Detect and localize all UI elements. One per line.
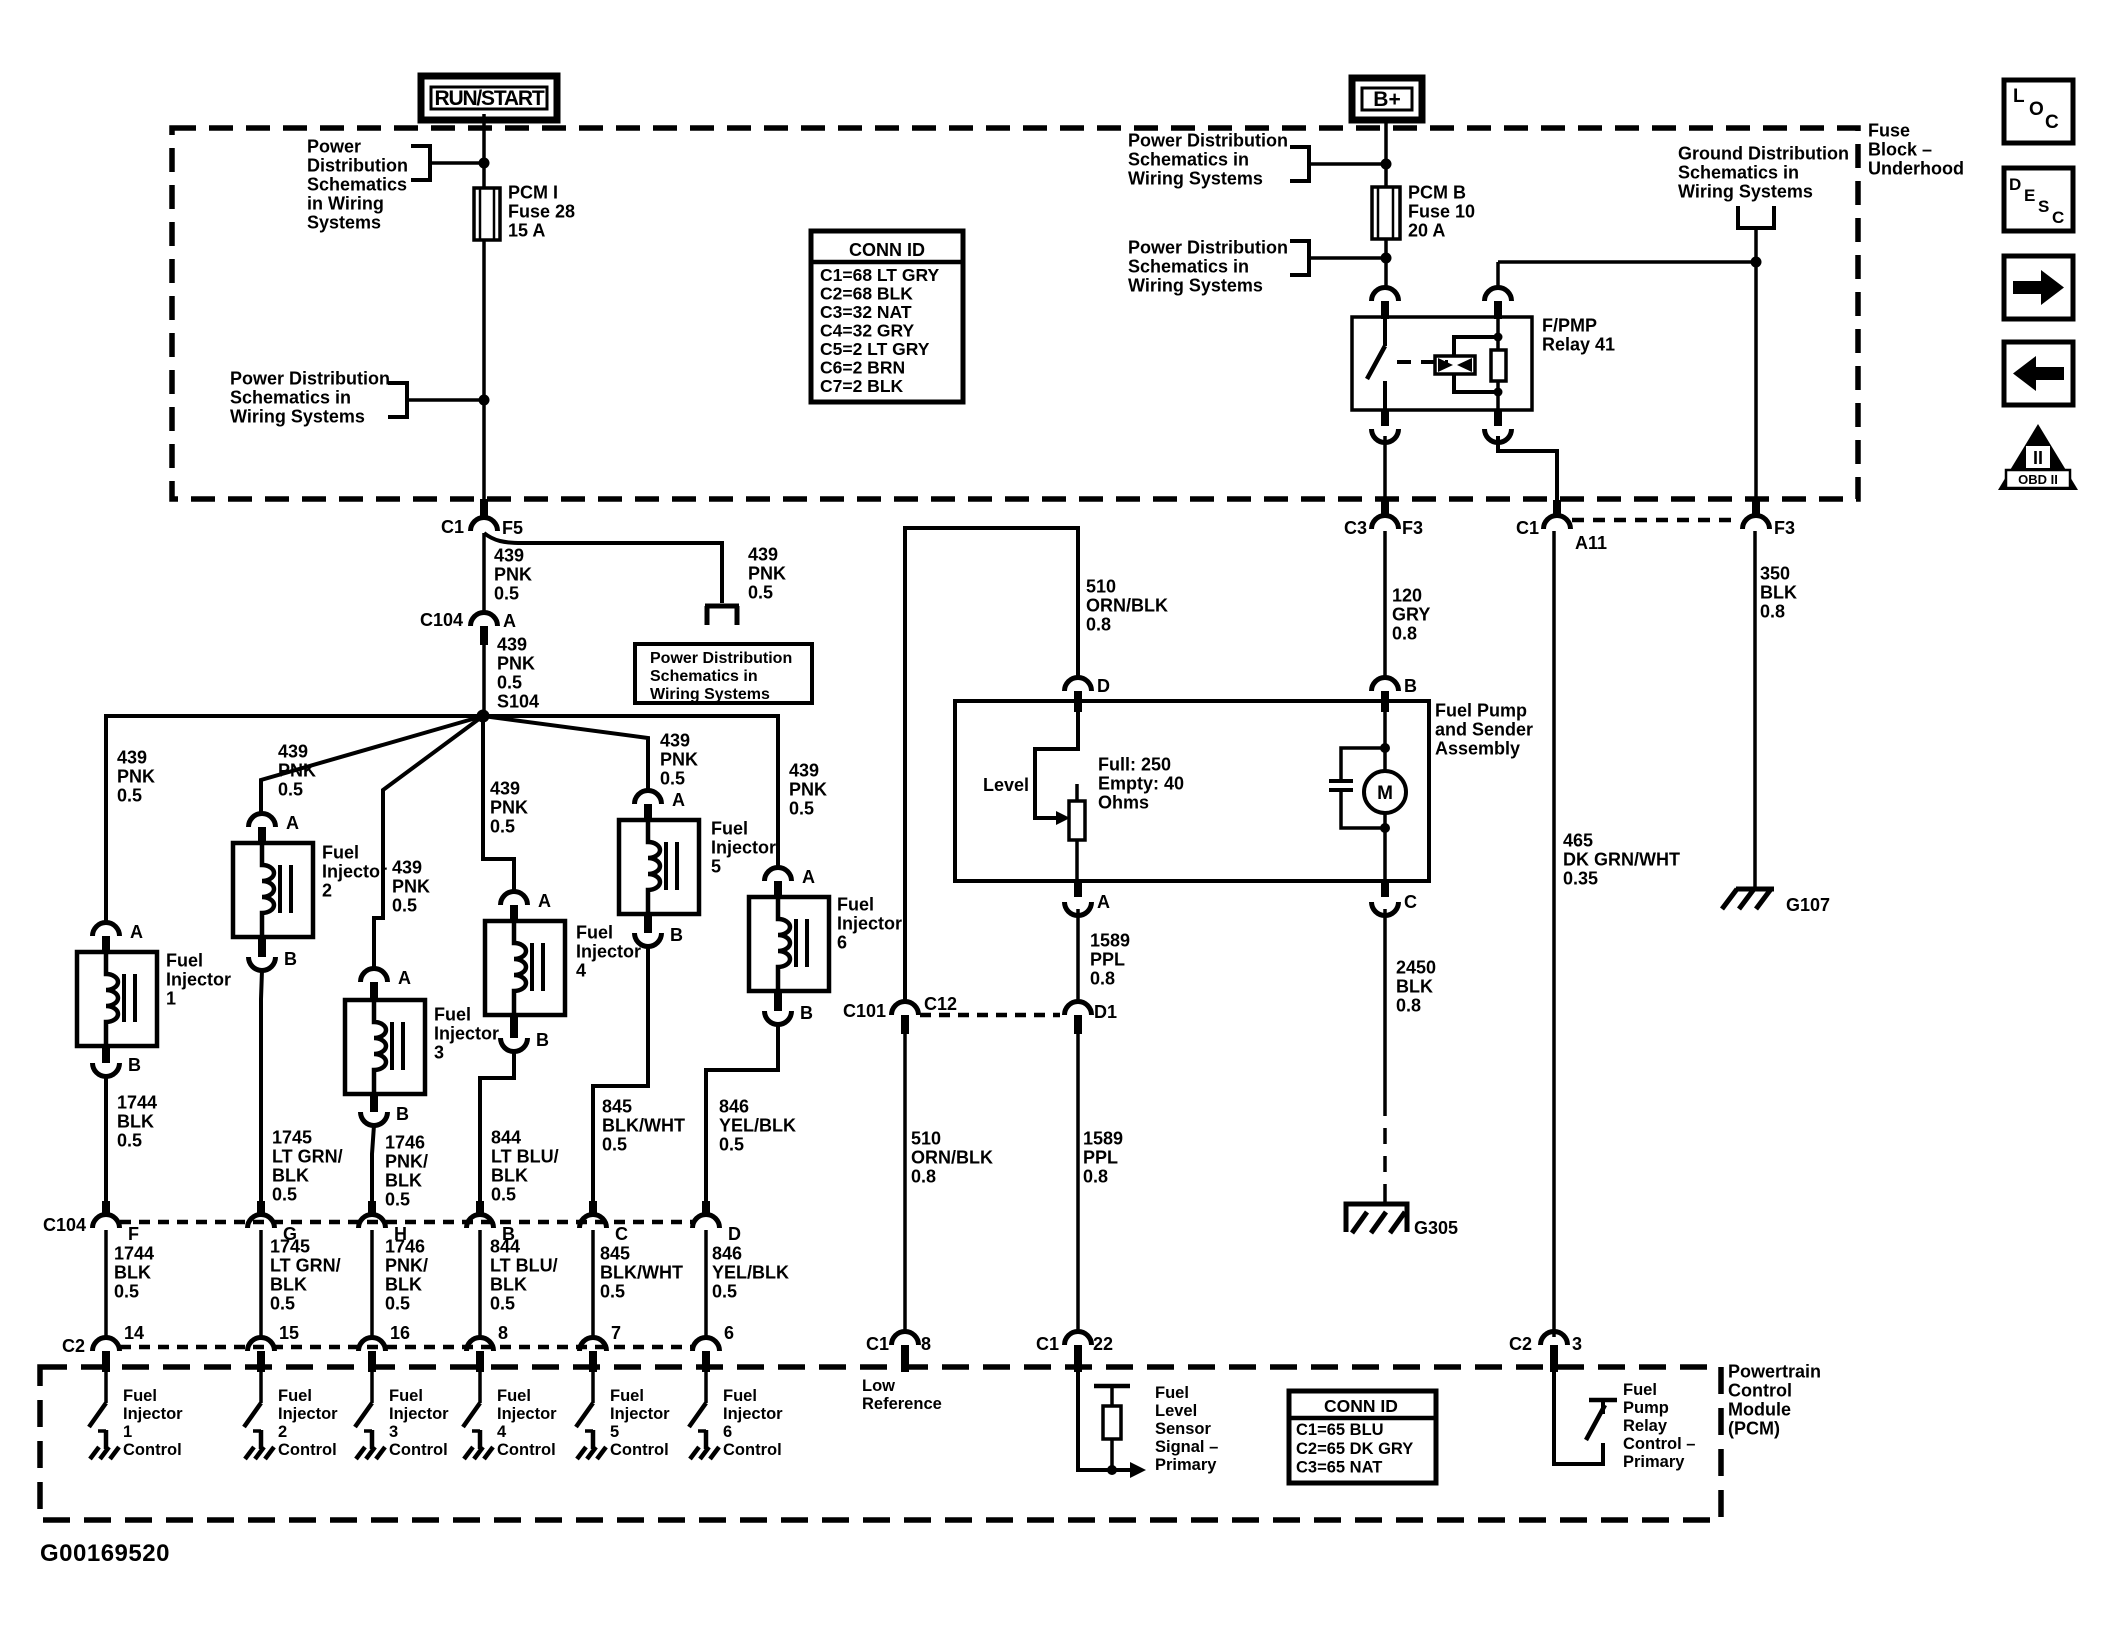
- svg-text:C12: C12: [924, 994, 957, 1014]
- svg-text:Fuel: Fuel: [434, 1004, 471, 1024]
- DESC icon: [2004, 168, 2073, 231]
- svg-text:Pump: Pump: [1623, 1399, 1669, 1417]
- svg-text:A: A: [286, 813, 299, 833]
- svg-text:5: 5: [711, 856, 721, 876]
- svg-text:5: 5: [610, 1423, 619, 1441]
- fuel level sensor resistor symbol: [1094, 1384, 1130, 1389]
- wire fuse to connector C1 F5: [482, 401, 486, 501]
- svg-text:Wiring Systems: Wiring Systems: [1128, 168, 1263, 188]
- connector F3 right: [1752, 500, 1760, 518]
- svg-text:0.5: 0.5: [719, 1134, 744, 1154]
- svg-text:BLK: BLK: [272, 1165, 309, 1185]
- svg-text:RUN/START: RUN/START: [435, 87, 545, 110]
- wire C104 F to C2 row: [104, 1230, 108, 1337]
- svg-text:C1: C1: [441, 517, 464, 537]
- connector C1 pin 22: [1065, 1332, 1092, 1346]
- svg-text:B: B: [800, 1003, 813, 1023]
- connector C2 pin 6: [693, 1338, 720, 1352]
- ground G305: [1346, 1204, 1407, 1232]
- svg-text:Fuel: Fuel: [278, 1387, 312, 1405]
- svg-text:Schematics in: Schematics in: [1128, 256, 1249, 276]
- svg-text:0.5: 0.5: [117, 1130, 142, 1150]
- svg-text:A: A: [538, 891, 551, 911]
- wire 439 PNK branch curve to power distribution box: [484, 533, 722, 603]
- fuel injector 2 control driver: [259, 1372, 263, 1403]
- connector C104 G: [257, 1201, 265, 1216]
- svg-text:Injector: Injector: [322, 861, 387, 881]
- wire ground distribution down to junction: [1754, 228, 1758, 262]
- relay pin 1 connector top: [1372, 288, 1399, 302]
- svg-text:Primary: Primary: [1155, 1456, 1217, 1474]
- F/PMP Relay 41 box: [1352, 317, 1532, 410]
- svg-text:3: 3: [1572, 1334, 1582, 1354]
- relay pin 3 connector bottom: [1381, 410, 1389, 426]
- connector C2 pin 15: [248, 1338, 275, 1352]
- svg-text:1744: 1744: [114, 1243, 154, 1263]
- dashed net line C104 row: [120, 1220, 692, 1225]
- svg-text:D: D: [728, 1224, 741, 1244]
- connector C1 F5: [471, 518, 498, 532]
- svg-text:C: C: [2052, 208, 2064, 227]
- wire relay pin 3 to C3 F3: [1383, 436, 1387, 503]
- svg-text:LT GRN/: LT GRN/: [270, 1255, 341, 1275]
- svg-text:Module: Module: [1728, 1399, 1791, 1419]
- connector B injector 3: [370, 1093, 378, 1112]
- svg-text:Level: Level: [1155, 1402, 1197, 1420]
- wire bracket to B+ wire lower: [1309, 256, 1386, 260]
- dashed net line C2 row: [120, 1345, 692, 1350]
- svg-text:C6=2 BRN: C6=2 BRN: [820, 357, 905, 377]
- svg-text:Control: Control: [723, 1441, 782, 1459]
- svg-text:1589: 1589: [1083, 1128, 1123, 1148]
- wire injector 6 B to C104: [706, 1024, 778, 1201]
- svg-text:PNK: PNK: [490, 797, 528, 817]
- svg-text:B: B: [1404, 676, 1417, 696]
- connector A injector 4: [501, 892, 528, 905]
- svg-text:PNK: PNK: [494, 564, 532, 584]
- svg-text:C: C: [615, 1224, 628, 1244]
- svg-text:A: A: [672, 790, 685, 810]
- connector A injector 2: [249, 814, 276, 828]
- svg-text:Wiring Systems: Wiring Systems: [650, 686, 770, 703]
- svg-text:GRY: GRY: [1392, 604, 1430, 624]
- svg-text:0.8: 0.8: [911, 1166, 936, 1186]
- svg-text:Control: Control: [389, 1441, 448, 1459]
- capacitor across motor: [1341, 748, 1385, 781]
- connector C104 H: [368, 1201, 376, 1216]
- svg-text:Block –: Block –: [1868, 139, 1932, 159]
- svg-text:Level: Level: [983, 775, 1029, 795]
- svg-text:Injector: Injector: [711, 837, 776, 857]
- svg-text:2: 2: [322, 880, 332, 900]
- svg-text:Fuel: Fuel: [837, 894, 874, 914]
- svg-text:14: 14: [124, 1323, 144, 1343]
- svg-text:Injector: Injector: [166, 969, 231, 989]
- svg-text:845: 845: [600, 1243, 630, 1263]
- svg-text:1745: 1745: [270, 1236, 310, 1256]
- RUN/START source label box: [421, 76, 557, 120]
- svg-text:PNK: PNK: [660, 749, 698, 769]
- fuel injector 6: [749, 897, 829, 991]
- svg-text:CONN ID: CONN ID: [1324, 1396, 1398, 1416]
- svg-text:D: D: [1097, 676, 1110, 696]
- svg-text:C4=32 GRY: C4=32 GRY: [820, 320, 915, 340]
- svg-text:Low: Low: [862, 1377, 895, 1395]
- svg-text:Fuse 28: Fuse 28: [508, 201, 575, 221]
- wire S104 to injector 4: [483, 716, 514, 892]
- connector C1 A11: [1553, 500, 1561, 518]
- svg-text:Assembly: Assembly: [1435, 738, 1520, 758]
- OBD II icon: [1998, 424, 2078, 490]
- svg-text:Schematics in: Schematics in: [1128, 149, 1249, 169]
- svg-text:1746: 1746: [385, 1132, 425, 1152]
- fuel injector 3: [345, 1000, 425, 1094]
- svg-text:Schematics: Schematics: [307, 174, 407, 194]
- svg-text:Injector: Injector: [723, 1405, 783, 1423]
- splice S104: [477, 710, 490, 723]
- svg-text:B: B: [670, 925, 683, 945]
- svg-text:PNK: PNK: [117, 766, 155, 786]
- node on RUN/START wire: [479, 158, 490, 169]
- B+ source label box: [1352, 78, 1422, 120]
- svg-text:0.5: 0.5: [497, 672, 522, 692]
- wire C104 to splice S104: [482, 645, 486, 716]
- wire bracket to RUN/START wire: [430, 161, 484, 165]
- svg-text:Fuel: Fuel: [711, 818, 748, 838]
- wire C3 F3 down to fuel pump B: [1383, 531, 1387, 677]
- wire C104 G to C2 row: [259, 1230, 263, 1337]
- svg-text:PPL: PPL: [1083, 1147, 1118, 1167]
- svg-text:Control: Control: [497, 1441, 556, 1459]
- svg-text:Control: Control: [278, 1441, 337, 1459]
- svg-text:0.35: 0.35: [1563, 868, 1598, 888]
- svg-text:Fuse: Fuse: [1868, 120, 1910, 140]
- svg-text:C: C: [2045, 112, 2059, 133]
- svg-text:C2: C2: [1509, 1334, 1532, 1354]
- wire PCM B fuse to relay: [1384, 239, 1388, 290]
- svg-text:C2=68 BLK: C2=68 BLK: [820, 283, 913, 303]
- svg-text:439: 439: [660, 730, 690, 750]
- svg-text:0.5: 0.5: [392, 895, 417, 915]
- svg-text:0.5: 0.5: [491, 1184, 516, 1204]
- connector B injector 1: [102, 1045, 110, 1063]
- wire C1 A11 down to PCM C2-3 465 DK GRN/WHT: [1552, 531, 1556, 1337]
- svg-text:D1: D1: [1094, 1002, 1117, 1022]
- connector C2 pin 8: [467, 1338, 494, 1352]
- svg-text:Fuel: Fuel: [576, 922, 613, 942]
- svg-text:0.5: 0.5: [385, 1189, 410, 1209]
- svg-text:C3=32 NAT: C3=32 NAT: [820, 302, 912, 322]
- connector B injector 2: [258, 936, 266, 957]
- svg-text:0.5: 0.5: [270, 1293, 295, 1313]
- svg-text:15: 15: [279, 1323, 299, 1343]
- svg-text:0.5: 0.5: [602, 1134, 627, 1154]
- svg-text:Fuel: Fuel: [723, 1387, 757, 1405]
- svg-text:DK GRN/WHT: DK GRN/WHT: [1563, 849, 1680, 869]
- fuel injector 1 control driver: [104, 1372, 108, 1403]
- svg-text:510: 510: [1086, 576, 1116, 596]
- svg-text:C1=65 BLU: C1=65 BLU: [1296, 1421, 1384, 1439]
- connector D fuel level sensor: [1065, 678, 1092, 692]
- svg-text:1745: 1745: [272, 1127, 312, 1147]
- svg-text:C1: C1: [866, 1334, 889, 1354]
- svg-text:G305: G305: [1414, 1218, 1458, 1238]
- svg-text:C101: C101: [843, 1001, 886, 1021]
- svg-text:439: 439: [748, 544, 778, 564]
- svg-text:PNK/: PNK/: [385, 1255, 428, 1275]
- relay coil wiring: [1454, 337, 1498, 392]
- svg-text:LT BLU/: LT BLU/: [491, 1146, 559, 1166]
- svg-text:16: 16: [390, 1323, 410, 1343]
- svg-text:PNK: PNK: [748, 563, 786, 583]
- wire dashed section to G305: [1383, 1100, 1387, 1190]
- svg-text:Relay: Relay: [1623, 1417, 1668, 1435]
- svg-text:0.5: 0.5: [712, 1281, 737, 1301]
- node relay coil bottom: [1494, 388, 1503, 397]
- node sensor resistor junction: [1107, 1465, 1117, 1475]
- connector C fuel pump return: [1381, 881, 1389, 897]
- svg-text:Power Distribution: Power Distribution: [1128, 130, 1288, 150]
- svg-text:0.5: 0.5: [114, 1281, 139, 1301]
- svg-text:A: A: [130, 922, 143, 942]
- connector A fuel level signal: [1074, 881, 1082, 897]
- svg-text:A: A: [1097, 892, 1110, 912]
- svg-text:OBD II: OBD II: [2018, 472, 2058, 487]
- svg-text:439: 439: [278, 741, 308, 761]
- fuel injector 1: [77, 952, 157, 1046]
- LOC icon: [2004, 80, 2073, 143]
- wire injector 3 B to C104: [372, 1125, 374, 1201]
- fuse PCM I Fuse 28 15A: [474, 188, 500, 240]
- relay actuation dashed link: [1397, 360, 1448, 364]
- connector C101 C12: [892, 1002, 919, 1015]
- fuel injector 5: [619, 820, 699, 914]
- relay resistor: [1496, 319, 1500, 350]
- svg-text:439: 439: [494, 545, 524, 565]
- module bracket above power distribution box: [705, 606, 739, 625]
- svg-text:Injector: Injector: [123, 1405, 183, 1423]
- svg-text:15 A: 15 A: [508, 220, 545, 240]
- svg-text:510: 510: [911, 1128, 941, 1148]
- fuel injector 2: [233, 843, 313, 937]
- svg-text:0.5: 0.5: [278, 779, 303, 799]
- svg-text:4: 4: [576, 960, 586, 980]
- svg-text:0.8: 0.8: [1396, 995, 1421, 1015]
- fuel injector 3 control driver: [370, 1372, 374, 1403]
- svg-text:Control: Control: [123, 1441, 182, 1459]
- svg-text:BLK/WHT: BLK/WHT: [602, 1115, 685, 1135]
- wire C104 H to C2 row: [370, 1230, 374, 1337]
- level sender wiper wire: [1035, 712, 1078, 818]
- svg-text:20 A: 20 A: [1408, 220, 1445, 240]
- svg-text:O: O: [2029, 99, 2044, 120]
- svg-text:F/PMP: F/PMP: [1542, 315, 1597, 335]
- connector C1 pin 8: [892, 1332, 919, 1346]
- fuel pump and sender assembly box: [955, 701, 1429, 881]
- svg-text:0.5: 0.5: [748, 582, 773, 602]
- svg-text:Injector: Injector: [434, 1023, 499, 1043]
- svg-text:B: B: [128, 1055, 141, 1075]
- wire C1 F5 to C104 A: [482, 533, 486, 612]
- svg-text:YEL/BLK: YEL/BLK: [719, 1115, 796, 1135]
- svg-text:Empty: 40: Empty: 40: [1098, 773, 1184, 793]
- connector C104 A: [471, 613, 498, 627]
- CONN ID table lower: [1289, 1391, 1436, 1483]
- connector C104 B: [476, 1201, 484, 1216]
- svg-text:C104: C104: [420, 610, 463, 630]
- svg-text:Injector: Injector: [610, 1405, 670, 1423]
- svg-text:D: D: [2009, 175, 2021, 194]
- svg-text:7: 7: [611, 1323, 621, 1343]
- svg-text:ORN/BLK: ORN/BLK: [1086, 595, 1168, 615]
- svg-text:439: 439: [789, 760, 819, 780]
- wire C down to G305: [1383, 909, 1387, 1100]
- svg-text:C2: C2: [62, 1336, 85, 1356]
- svg-text:B: B: [396, 1104, 409, 1124]
- connector B fuel pump: [1372, 678, 1399, 692]
- fuel injector 4 control driver: [478, 1372, 482, 1403]
- svg-text:C2=65 DK GRY: C2=65 DK GRY: [1296, 1440, 1413, 1458]
- svg-text:2: 2: [278, 1423, 287, 1441]
- svg-text:BLK: BLK: [1396, 976, 1433, 996]
- fuel injector 4: [485, 921, 565, 1015]
- svg-text:Underhood: Underhood: [1868, 158, 1964, 178]
- wire C104 C to C2 row: [591, 1230, 595, 1337]
- svg-text:0.8: 0.8: [1090, 968, 1115, 988]
- svg-text:6: 6: [837, 932, 847, 952]
- svg-text:F3: F3: [1402, 518, 1423, 538]
- svg-text:Fuel: Fuel: [610, 1387, 644, 1405]
- svg-text:1: 1: [123, 1423, 132, 1441]
- connector C2 pin 16: [359, 1338, 386, 1352]
- wire C101 down to C1-8: [903, 1034, 907, 1332]
- svg-text:845: 845: [602, 1096, 632, 1116]
- svg-text:F3: F3: [1774, 518, 1795, 538]
- relay pin 2 connector top: [1485, 288, 1512, 302]
- svg-text:C7=2 BLK: C7=2 BLK: [820, 376, 904, 396]
- connector A injector 5: [635, 791, 662, 805]
- wire injector 4 B to C104: [480, 1051, 514, 1201]
- svg-text:Fuel: Fuel: [1623, 1381, 1657, 1399]
- wire S104 to injector 1: [106, 716, 483, 921]
- wire junction down to F3: [1754, 262, 1758, 503]
- connector C2 pin 14: [93, 1338, 120, 1351]
- svg-text:BLK: BLK: [385, 1170, 422, 1190]
- svg-text:S104: S104: [497, 691, 539, 711]
- svg-text:3: 3: [389, 1423, 398, 1441]
- svg-text:0.5: 0.5: [494, 583, 519, 603]
- svg-text:8: 8: [498, 1323, 508, 1343]
- svg-text:0.5: 0.5: [490, 816, 515, 836]
- svg-text:439: 439: [117, 747, 147, 767]
- fuel level sensor input wire: [1078, 1372, 1131, 1470]
- wire C104 D to C2 row: [704, 1230, 708, 1337]
- svg-text:S: S: [2038, 197, 2049, 216]
- svg-text:C3=65 NAT: C3=65 NAT: [1296, 1458, 1382, 1476]
- wire injector 5 B to C104: [593, 946, 648, 1201]
- svg-text:0.8: 0.8: [1760, 601, 1785, 621]
- svg-text:4: 4: [497, 1423, 507, 1441]
- svg-text:1744: 1744: [117, 1092, 157, 1112]
- CONN ID table upper: [811, 231, 963, 402]
- svg-text:Fuel: Fuel: [389, 1387, 423, 1405]
- wire relay pin 4 jog to C1 A11: [1498, 436, 1557, 503]
- svg-text:Primary: Primary: [1623, 1453, 1685, 1471]
- svg-text:F5: F5: [502, 518, 523, 538]
- level sender resistor: [1075, 784, 1079, 801]
- svg-text:6: 6: [724, 1323, 734, 1343]
- svg-text:Signal –: Signal –: [1155, 1438, 1218, 1456]
- relay coil feed riser: [1496, 262, 1500, 290]
- svg-text:Fuse 10: Fuse 10: [1408, 201, 1475, 221]
- svg-text:(PCM): (PCM): [1728, 1418, 1780, 1438]
- connector C3 F3: [1381, 500, 1389, 518]
- connector D1: [1065, 1002, 1092, 1015]
- svg-text:0.8: 0.8: [1086, 614, 1111, 634]
- svg-text:0.5: 0.5: [272, 1184, 297, 1204]
- fuse block underhood dashed box: [172, 128, 1858, 499]
- svg-text:Injector: Injector: [389, 1405, 449, 1423]
- svg-text:Powertrain: Powertrain: [1728, 1361, 1821, 1381]
- connector B injector 4: [510, 1014, 518, 1038]
- svg-text:PNK/: PNK/: [385, 1151, 428, 1171]
- svg-text:BLK: BLK: [270, 1274, 307, 1294]
- svg-text:Full: 250: Full: 250: [1098, 754, 1171, 774]
- wire F3 down to G107: [1753, 531, 1757, 888]
- wire S104 to injector 6: [483, 716, 778, 868]
- svg-text:LT GRN/: LT GRN/: [272, 1146, 343, 1166]
- svg-text:1589: 1589: [1090, 930, 1130, 950]
- svg-text:C1: C1: [1516, 518, 1539, 538]
- svg-text:F: F: [128, 1224, 139, 1244]
- svg-text:439: 439: [490, 778, 520, 798]
- svg-text:PNK: PNK: [392, 876, 430, 896]
- svg-text:Sensor: Sensor: [1155, 1420, 1212, 1438]
- svg-text:B+: B+: [1373, 88, 1400, 111]
- module bracket below ground distribution text: [1738, 206, 1774, 228]
- connector A injector 1: [93, 923, 120, 936]
- wire bracket to fuse wire: [407, 398, 484, 402]
- svg-text:0.5: 0.5: [490, 1293, 515, 1313]
- wire injector 2 B to C104: [261, 970, 262, 1201]
- svg-text:0.5: 0.5: [117, 785, 142, 805]
- svg-text:PNK: PNK: [278, 760, 316, 780]
- relay switch: [1383, 319, 1387, 346]
- svg-text:PPL: PPL: [1090, 949, 1125, 969]
- svg-text:PNK: PNK: [789, 779, 827, 799]
- svg-text:846: 846: [719, 1096, 749, 1116]
- svg-text:Injector: Injector: [837, 913, 902, 933]
- svg-text:Control –: Control –: [1623, 1435, 1695, 1453]
- svg-text:E: E: [2024, 186, 2035, 205]
- dashed net line A11 to F3: [1572, 518, 1738, 523]
- svg-text:BLK: BLK: [385, 1274, 422, 1294]
- svg-text:0.5: 0.5: [600, 1281, 625, 1301]
- svg-text:PCM B: PCM B: [1408, 182, 1466, 202]
- svg-text:Relay 41: Relay 41: [1542, 334, 1615, 354]
- svg-text:Ohms: Ohms: [1098, 792, 1149, 812]
- svg-text:Schematics in: Schematics in: [1678, 162, 1799, 182]
- svg-text:B: B: [536, 1030, 549, 1050]
- wire injector 1 B to C104: [104, 1076, 108, 1201]
- svg-text:G107: G107: [1786, 895, 1830, 915]
- svg-text:Control: Control: [1728, 1380, 1792, 1400]
- svg-text:YEL/BLK: YEL/BLK: [712, 1262, 789, 1282]
- svg-text:Wiring Systems: Wiring Systems: [230, 406, 365, 426]
- svg-text:C: C: [1404, 892, 1417, 912]
- svg-text:846: 846: [712, 1243, 742, 1263]
- svg-text:BLK: BLK: [114, 1262, 151, 1282]
